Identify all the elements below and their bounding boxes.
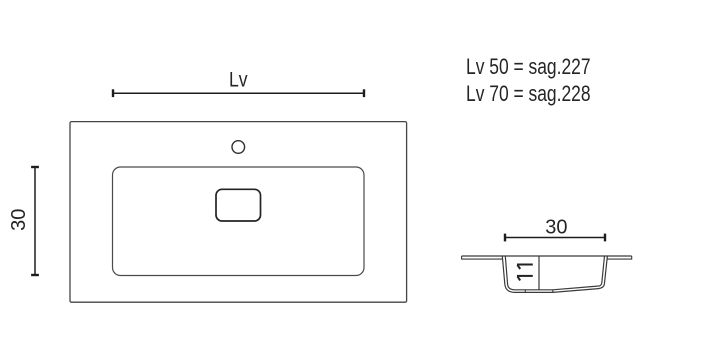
section: bowl outer wall (502, 256, 607, 292)
basin inner bowl rounded rectangle (113, 167, 365, 276)
svg-text:Lv: Lv (229, 68, 248, 92)
section: left flange underside (462, 256, 503, 259)
section: bowl inner wall (505, 256, 604, 290)
section: bottom joint tick 2 (552, 290, 554, 293)
section: top rim line (462, 255, 632, 257)
tick right of Lv dimension (363, 89, 365, 97)
dimension line Lv (top) (113, 92, 364, 94)
faucet hole circle (232, 141, 245, 154)
label 11 (rotated, in section): digit 2 (517, 276, 533, 281)
dimension line 30 (section, top) (505, 237, 605, 239)
washbasin outer rectangle (plan view) (70, 122, 407, 303)
svg-text:30: 30 (8, 209, 30, 231)
tick bottom of 30 dimension (31, 274, 39, 276)
tick left of section 30 dimension (504, 234, 506, 242)
tick top of 30 dimension (31, 166, 39, 168)
svg-text:Lv 70 = sag.228: Lv 70 = sag.228 (466, 82, 591, 106)
label 11 (rotated, in section): digit 1 (517, 265, 533, 270)
section: bottom joint tick 1 (524, 290, 526, 293)
svg-text:Lv 50 = sag.227: Lv 50 = sag.227 (466, 55, 591, 79)
section: divider line (538, 256, 540, 290)
section: right flange underside (607, 256, 631, 259)
tick left of Lv dimension (112, 89, 114, 97)
drain rounded rectangle (216, 189, 261, 221)
tick right of section 30 dimension (604, 234, 606, 242)
svg-text:30: 30 (545, 217, 567, 239)
dimension line 30 (left, vertical) (34, 167, 36, 275)
